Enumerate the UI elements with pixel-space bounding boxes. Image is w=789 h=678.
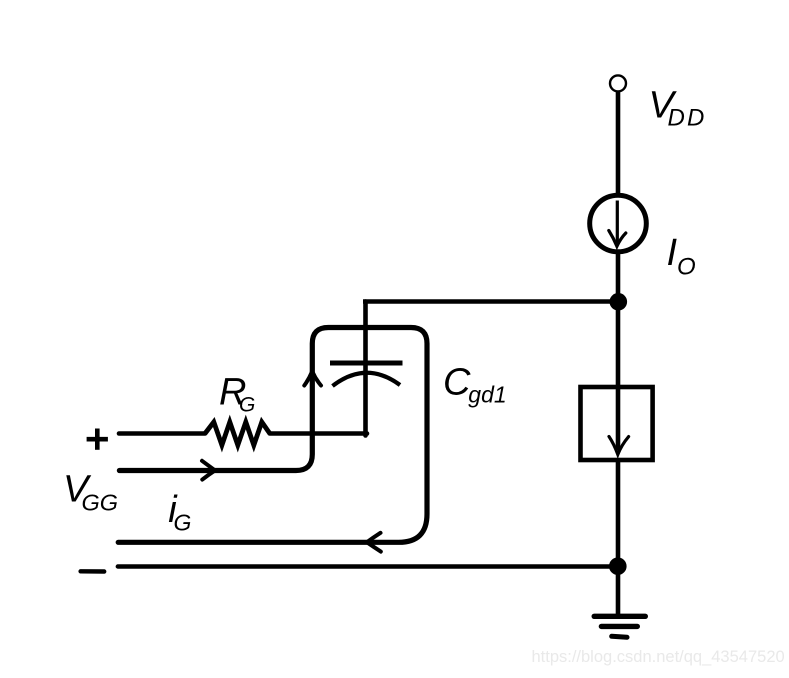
svg-text:C: C: [443, 361, 471, 403]
wire terminal to current source: [616, 92, 621, 196]
svg-text:DD: DD: [668, 105, 707, 132]
current path iG (thick curve): [118, 328, 427, 543]
wire capacitor branch (vertical): [363, 302, 368, 436]
wire minus terminal to source node: [118, 564, 618, 568]
capacitor Cgd1: [330, 363, 403, 386]
svg-text:https://blog.csdn.net/qq_43547: https://blog.csdn.net/qq_43547520: [531, 648, 784, 666]
svg-text:GG: GG: [82, 490, 119, 516]
ground: [594, 616, 645, 637]
label VGG: [63, 469, 118, 516]
svg-text:G: G: [239, 394, 255, 417]
svg-text:gd1: gd1: [468, 382, 506, 408]
current source IO: [590, 195, 647, 252]
wire node to ground: [616, 567, 621, 616]
label IO: [667, 232, 696, 281]
svg-text:O: O: [677, 253, 696, 280]
transistor box: [581, 386, 653, 461]
svg-text:I: I: [667, 232, 678, 274]
wire transistor to source node: [616, 462, 621, 567]
arrowhead iG left: [367, 533, 381, 552]
arrowhead iG up: [304, 371, 321, 385]
label iG: [168, 489, 191, 536]
wire resistor to capacitor junction: [270, 431, 367, 436]
wire plus terminal to resistor: [119, 431, 205, 436]
wire current source to drain node: [616, 251, 621, 385]
resistor RG: [205, 422, 270, 445]
label RG: [219, 372, 255, 417]
terminal plus: [87, 429, 108, 450]
terminal minus: [81, 569, 105, 574]
svg-text:G: G: [174, 510, 192, 536]
wire drain node to capacitor branch (horizontal): [363, 299, 618, 304]
arrowhead iG right: [202, 461, 215, 480]
node source/ground (junction dot): [609, 557, 627, 575]
label Cgd1: [443, 361, 507, 407]
terminal VDD (open circle): [610, 75, 626, 91]
node drain (junction dot): [610, 293, 628, 311]
label VDD: [649, 85, 707, 132]
